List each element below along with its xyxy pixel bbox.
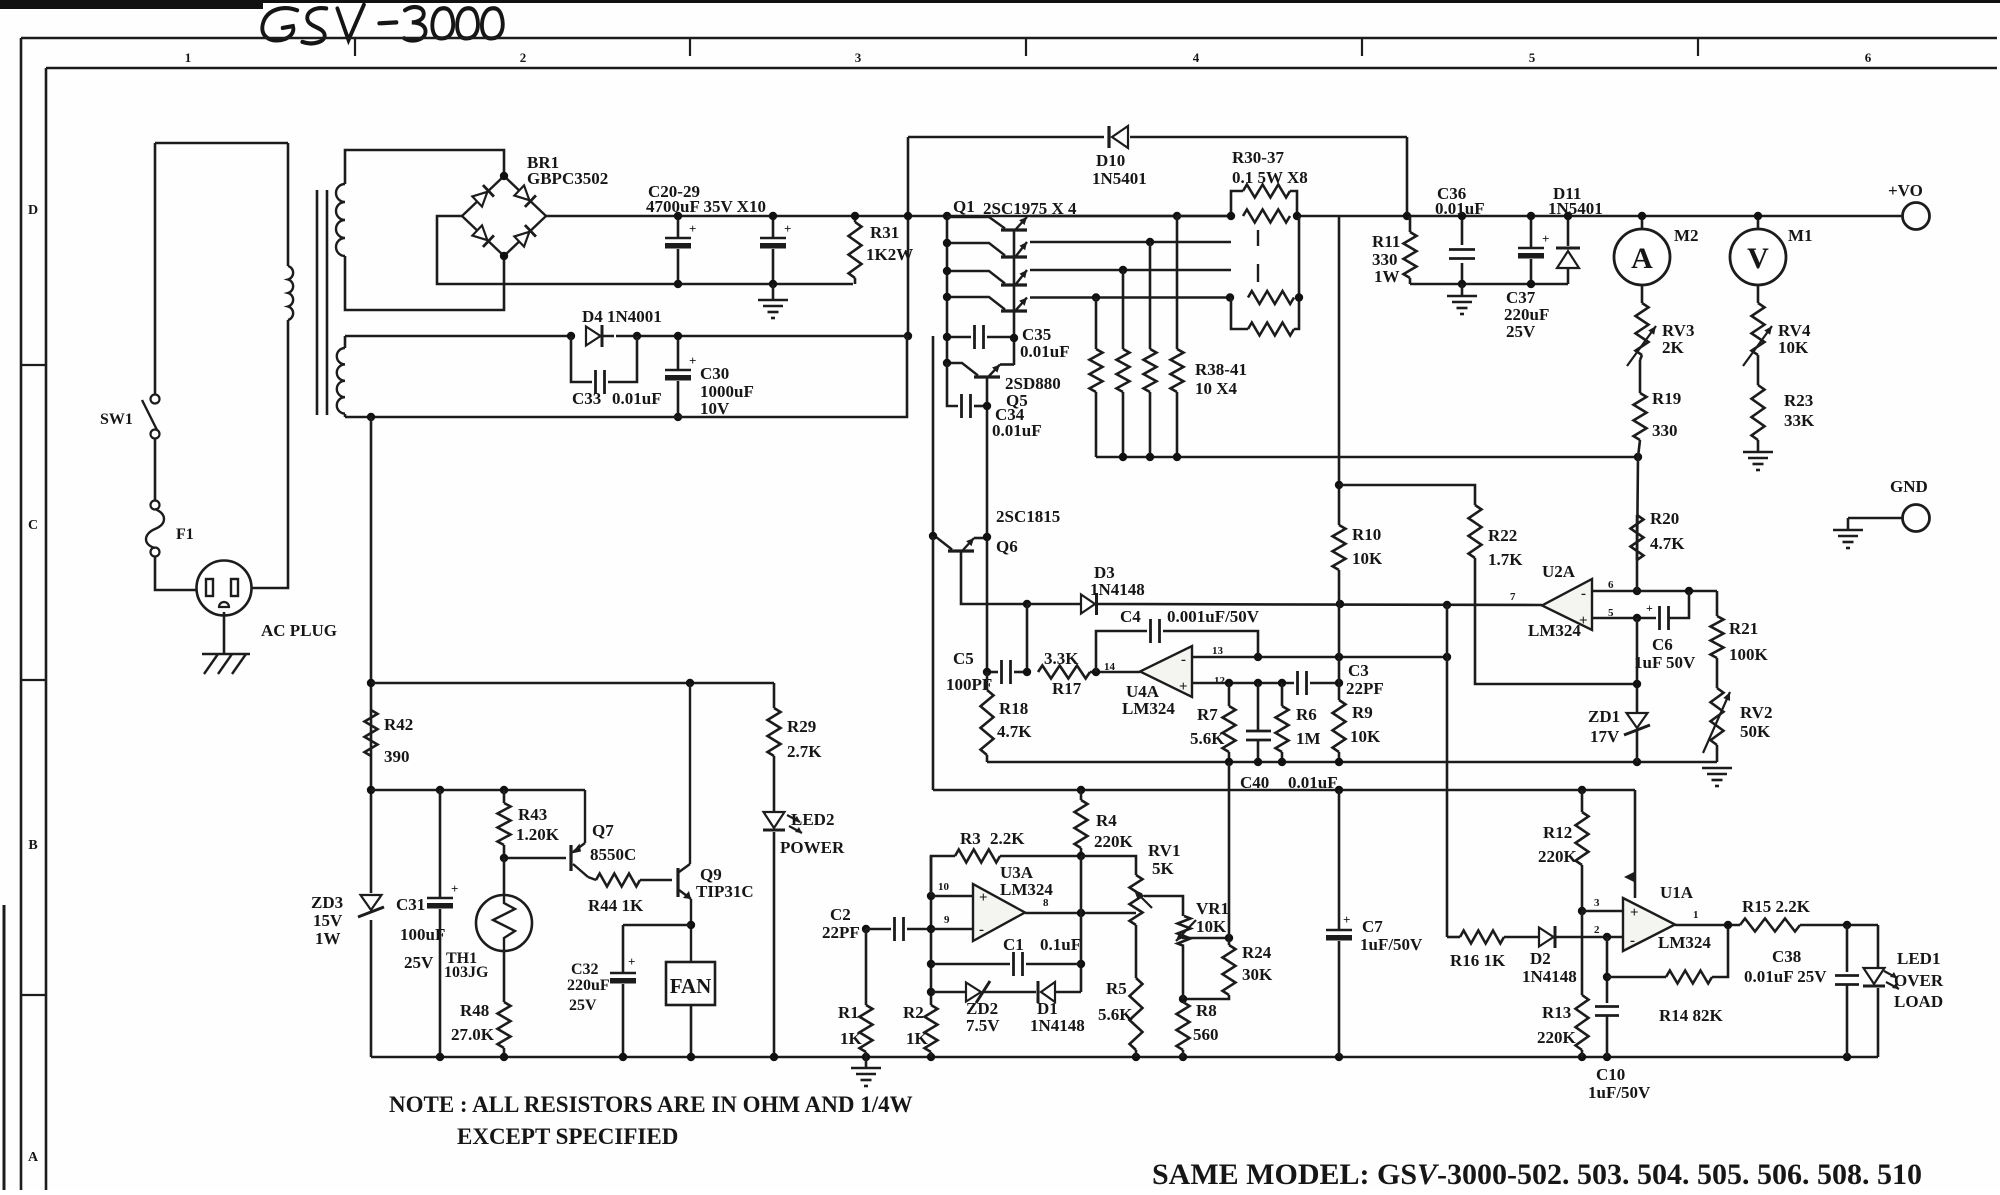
svg-text:+: + <box>1343 912 1350 927</box>
wire U4A out <box>1096 671 1140 674</box>
pot RV2 <box>1711 688 1724 745</box>
svg-text:330: 330 <box>1652 421 1678 440</box>
node rail C10 <box>1603 1053 1611 1061</box>
capacitor C38 <box>1846 925 1849 972</box>
svg-text:10V: 10V <box>700 399 730 418</box>
svg-text:1.20K: 1.20K <box>516 825 560 844</box>
resistor R38b <box>1122 270 1125 349</box>
capacitor C37 <box>1530 216 1533 248</box>
svg-text:R15 2.2K: R15 2.2K <box>1742 897 1811 916</box>
resistor R30-37 upper loop <box>1231 191 1243 216</box>
svg-text:R11: R11 <box>1372 232 1400 251</box>
wire R43 base line <box>504 857 566 860</box>
op-amp U4A <box>1140 646 1192 697</box>
secondary 1 loop bottom <box>345 256 504 310</box>
svg-text:3: 3 <box>1594 897 1600 909</box>
resistor R29 <box>773 683 776 708</box>
svg-text:1N4148: 1N4148 <box>1030 1016 1085 1035</box>
resistor R12 <box>1581 790 1584 812</box>
svg-text:ZD1: ZD1 <box>1588 707 1620 726</box>
svg-text:GBPC3502: GBPC3502 <box>527 169 608 188</box>
wire R24 col <box>1228 762 1231 945</box>
svg-text:R5: R5 <box>1106 979 1127 998</box>
wire RV1 wiper <box>1144 896 1183 916</box>
wire bottom rail <box>371 1056 1878 1059</box>
svg-text:+: + <box>689 221 696 236</box>
svg-text:C10: C10 <box>1596 1065 1625 1084</box>
diode D4 <box>586 327 601 346</box>
pot VR1 <box>1178 916 1191 946</box>
svg-text:OVER: OVER <box>1894 971 1944 990</box>
svg-text:U2A: U2A <box>1542 562 1576 581</box>
wire Q6 collector vertical <box>932 336 935 536</box>
svg-text:0.001uF/50V: 0.001uF/50V <box>1167 607 1260 626</box>
wire sec2 bottom <box>345 336 907 417</box>
svg-text:Q6: Q6 <box>996 537 1018 556</box>
svg-text:NOTE : ALL RESISTORS ARE IN OH: NOTE : ALL RESISTORS ARE IN OHM AND 1/4W <box>389 1092 913 1117</box>
diode D3 <box>1081 595 1095 614</box>
svg-text:0.01uF: 0.01uF <box>1020 342 1070 361</box>
svg-text:10: 10 <box>938 881 950 893</box>
bridge BR1 outline <box>462 176 546 256</box>
svg-text:1W: 1W <box>1374 267 1400 286</box>
svg-text:VR1: VR1 <box>1196 899 1229 918</box>
svg-text:R31: R31 <box>870 223 899 242</box>
node 931 c1 <box>927 960 935 968</box>
node R12 top <box>1578 786 1586 794</box>
svg-text:27.0K: 27.0K <box>451 1025 495 1044</box>
transistor Q1d <box>1001 309 1027 312</box>
svg-text:TIP31C: TIP31C <box>696 882 754 901</box>
svg-text:C6: C6 <box>1652 635 1673 654</box>
led LED1 <box>1877 925 1880 968</box>
svg-text:1: 1 <box>1693 909 1699 921</box>
resistor R8 <box>1177 1002 1190 1050</box>
node 931 pin9 <box>927 925 935 933</box>
svg-text:R8: R8 <box>1196 1001 1217 1020</box>
zener ZD2 <box>931 991 966 994</box>
svg-text:-: - <box>1630 933 1635 949</box>
node C30 bottom <box>674 413 682 421</box>
capacitor C31 <box>439 790 442 898</box>
node r14 tap <box>1603 973 1611 981</box>
wire x931 <box>930 856 933 1005</box>
node rail C32 <box>619 1053 627 1061</box>
wire emitter2 <box>1030 241 1231 244</box>
svg-text:C1: C1 <box>1003 935 1024 954</box>
wire Q1 base bus <box>1013 230 1016 365</box>
svg-text:13: 13 <box>1212 645 1224 657</box>
node sec2 371 <box>367 413 375 421</box>
resistor R20 <box>1636 515 1639 591</box>
svg-text:0.01uF: 0.01uF <box>1435 199 1485 218</box>
svg-text:+: + <box>1542 231 1549 246</box>
wire x1081 down <box>1080 856 1083 992</box>
transistor Q6 <box>948 549 974 552</box>
pot RV1 <box>1130 875 1143 925</box>
node rail R8 <box>1179 1053 1187 1061</box>
node Q1c c <box>943 267 951 275</box>
diode D1 <box>1037 981 1040 1003</box>
meter M2 ammeter <box>1641 216 1644 229</box>
wire emitter1 <box>1030 215 1177 218</box>
svg-text:FAN: FAN <box>670 974 712 998</box>
pot RV4 <box>1757 285 1760 303</box>
wire GND stub <box>1848 517 1902 520</box>
capacitor C2 <box>866 928 891 931</box>
wire main rail right <box>1297 215 1902 218</box>
svg-text:10K: 10K <box>1350 727 1381 746</box>
resistor R6 <box>1281 683 1284 706</box>
svg-text:+VO: +VO <box>1888 181 1923 200</box>
node D4 anode <box>567 332 575 340</box>
svg-text:R42: R42 <box>384 715 413 734</box>
svg-text:2: 2 <box>1594 924 1600 936</box>
node D11 top <box>1564 212 1572 220</box>
node 1407 rail <box>1403 212 1411 220</box>
wire primary right upper <box>287 143 290 266</box>
svg-text:R17: R17 <box>1052 679 1082 698</box>
transistor Q1a <box>1001 228 1027 231</box>
BR1 diode L-T <box>472 192 487 207</box>
capacitor C6 <box>1658 606 1661 630</box>
svg-text:V: V <box>1747 242 1769 275</box>
svg-text:2.2K: 2.2K <box>990 829 1025 848</box>
border row divider <box>21 994 46 996</box>
svg-text:220K: 220K <box>1537 1028 1577 1047</box>
node r30 lower right <box>1295 293 1303 301</box>
svg-text:103JG: 103JG <box>444 964 489 981</box>
node out r4 <box>1077 909 1085 917</box>
resistor R10 <box>1333 525 1346 570</box>
node C4 out <box>1092 668 1100 676</box>
wire pin5 <box>1592 617 1656 620</box>
svg-text:9: 9 <box>944 914 950 926</box>
svg-text:M2: M2 <box>1674 226 1699 245</box>
wire gnd-ref rail <box>987 761 1717 764</box>
svg-text:25V: 25V <box>569 997 597 1014</box>
svg-text:1uF/50V: 1uF/50V <box>1588 1083 1651 1102</box>
svg-text:F1: F1 <box>176 526 194 543</box>
svg-text:Q7: Q7 <box>592 821 614 840</box>
wire Q6 base <box>961 551 1027 604</box>
wire 371 column <box>370 417 373 893</box>
node C37 top <box>1527 212 1535 220</box>
wire pin5 down <box>1636 618 1639 712</box>
wire lower rail <box>678 283 853 286</box>
node C40 bot <box>1254 758 1262 766</box>
svg-text:0.1uF: 0.1uF <box>1040 935 1081 954</box>
capacitor C7 <box>1338 790 1341 930</box>
svg-text:R2: R2 <box>903 1003 924 1022</box>
BR1 diode B-R <box>514 232 529 247</box>
switch SW1 <box>151 395 160 404</box>
svg-text:100K: 100K <box>1729 645 1769 664</box>
svg-text:POWER: POWER <box>780 838 845 857</box>
fan FAN <box>666 962 715 1005</box>
resistor R11 <box>1409 216 1412 232</box>
wire D10 right down <box>1406 137 1409 216</box>
node R22 tap <box>1335 481 1343 489</box>
node rail R48 <box>500 1053 508 1061</box>
node C36 bot <box>1458 280 1466 288</box>
wire SW1 to F1 <box>154 438 157 501</box>
svg-text:5: 5 <box>1529 50 1536 65</box>
svg-text:R24: R24 <box>1242 943 1272 962</box>
svg-text:EXCEPT SPECIFIED: EXCEPT SPECIFIED <box>457 1124 678 1149</box>
svg-text:D4 1N4001: D4 1N4001 <box>582 307 662 326</box>
node C3 right <box>1335 679 1343 687</box>
secondary 1 coil <box>336 184 345 256</box>
svg-text:-: - <box>1181 652 1186 668</box>
svg-text:R9: R9 <box>1352 703 1373 722</box>
node 1447 605 <box>1443 601 1451 609</box>
svg-text:R12: R12 <box>1543 823 1572 842</box>
node out r14 <box>1724 921 1732 929</box>
wire BR1 left to lower rail <box>437 216 678 284</box>
node C20a bottom <box>674 280 682 288</box>
node e4 r38 <box>1092 293 1100 301</box>
node Q6 collector <box>929 532 937 540</box>
border outer left <box>20 38 23 1190</box>
wire R10 col top <box>1338 216 1341 525</box>
svg-text:-: - <box>1581 586 1586 602</box>
node q9 coll line <box>686 679 694 687</box>
ground under C20 <box>772 284 775 300</box>
svg-text:6: 6 <box>1865 50 1872 65</box>
transistor Q9 <box>676 868 679 897</box>
svg-text:6: 6 <box>1608 579 1614 591</box>
svg-text:ZD3: ZD3 <box>311 893 343 912</box>
svg-text:0.1 5W X8: 0.1 5W X8 <box>1232 168 1308 187</box>
wire Q5 base down <box>986 377 989 672</box>
node q9 emitter c32 <box>687 921 695 929</box>
svg-text:100uF: 100uF <box>400 925 445 944</box>
node rail C31 <box>436 1053 444 1061</box>
wire F1 to plug <box>155 556 196 590</box>
resistor R5 <box>1135 925 1138 978</box>
node r38d bus <box>1173 453 1181 461</box>
resistor R38c <box>1149 242 1152 349</box>
node M1 rail <box>1754 212 1762 220</box>
node rail C38 <box>1843 1053 1851 1061</box>
svg-text:R16 1K: R16 1K <box>1450 951 1506 970</box>
node 908 C30 line <box>904 332 912 340</box>
svg-text:1N4148: 1N4148 <box>1090 580 1145 599</box>
svg-text:22PF: 22PF <box>1346 679 1384 698</box>
node pin3 <box>1578 907 1586 915</box>
wire U4A pin13 <box>1192 656 1447 659</box>
node C35 left <box>943 333 951 341</box>
op-amp U2A <box>1542 579 1592 630</box>
node C20a top <box>674 212 682 220</box>
node C20b bottom <box>769 280 777 288</box>
border row divider <box>21 679 46 681</box>
node 931 zd2 <box>927 988 935 996</box>
svg-text:4: 4 <box>1193 50 1200 65</box>
node C30 top <box>674 332 682 340</box>
fuse F1 <box>151 501 160 510</box>
svg-text:D10: D10 <box>1096 151 1125 170</box>
svg-text:C5: C5 <box>953 649 974 668</box>
node C5 left <box>983 668 991 676</box>
border tick 1 <box>354 38 356 56</box>
svg-text:C7: C7 <box>1362 917 1383 936</box>
svg-text:R18: R18 <box>999 699 1028 718</box>
node c38 top <box>1843 921 1851 929</box>
svg-text:C33: C33 <box>572 389 601 408</box>
svg-text:2: 2 <box>520 50 527 65</box>
svg-text:30K: 30K <box>1242 965 1273 984</box>
wire sec2 top line <box>345 335 571 338</box>
transistor Q7 pnp <box>569 845 572 871</box>
svg-text:R20: R20 <box>1650 509 1679 528</box>
node r38c bus <box>1146 453 1154 461</box>
wire R13 col <box>1581 911 1584 995</box>
node C34 right <box>983 402 991 410</box>
capacitor C1 <box>931 963 1010 966</box>
svg-text:A: A <box>1631 242 1653 275</box>
svg-text:B: B <box>28 838 37 853</box>
wire pin6 <box>1592 590 1717 593</box>
svg-text:100PF: 100PF <box>946 675 992 694</box>
svg-text:22PF: 22PF <box>822 923 860 942</box>
resistor R38d <box>1176 216 1179 349</box>
resistor R1 <box>865 929 868 1005</box>
terminal +VO <box>1903 203 1930 230</box>
svg-text:M1: M1 <box>1788 226 1813 245</box>
svg-text:R44 1K: R44 1K <box>588 896 644 915</box>
resistor R22 <box>1469 505 1482 558</box>
svg-text:R22: R22 <box>1488 526 1517 545</box>
svg-text:R13: R13 <box>1542 1003 1571 1022</box>
node C7 top <box>1335 786 1343 794</box>
resistor R4 <box>1080 790 1083 800</box>
svg-text:3: 3 <box>855 50 862 65</box>
svg-text:LED2: LED2 <box>791 810 834 829</box>
capacitor C35 <box>947 336 971 339</box>
svg-text:25V: 25V <box>404 953 434 972</box>
node C40 top <box>1254 679 1262 687</box>
svg-text:-: - <box>979 922 984 938</box>
svg-text:1uF 50V: 1uF 50V <box>1634 653 1696 672</box>
svg-text:1uF/50V: 1uF/50V <box>1360 935 1423 954</box>
wire plug ground <box>223 612 226 654</box>
node rail R13 <box>1578 1053 1586 1061</box>
wire primary top <box>155 142 288 145</box>
secondary 1 loop top <box>345 150 504 184</box>
secondary 2 coil <box>337 348 345 414</box>
transistor Q5 <box>974 375 1000 378</box>
node C2 left <box>862 925 870 933</box>
svg-text:2K: 2K <box>1662 338 1685 357</box>
resistor R17 <box>1038 666 1090 679</box>
svg-text:+: + <box>1630 905 1639 921</box>
node C35 right <box>1010 334 1018 342</box>
svg-text:1N4148: 1N4148 <box>1522 967 1577 986</box>
wire V+ line <box>933 789 1635 792</box>
node R6 bot <box>1278 758 1286 766</box>
node 1339 657 <box>1335 653 1343 661</box>
svg-text:R30-37: R30-37 <box>1232 148 1284 167</box>
node Q5 collector <box>943 359 951 367</box>
wire main rail left <box>546 215 1231 218</box>
resistor R30-37 inline bottom <box>1248 291 1294 304</box>
border tick 4 <box>1361 38 1363 56</box>
dashed continuation <box>1257 230 1259 246</box>
svg-text:SW1: SW1 <box>100 411 133 428</box>
node r38b bus <box>1119 453 1127 461</box>
node 371 683 <box>367 679 375 687</box>
svg-text:+: + <box>784 221 791 236</box>
wire R3 to RV1 <box>1081 856 1136 875</box>
zener ZD3 <box>361 895 382 910</box>
svg-text:C38: C38 <box>1772 947 1801 966</box>
svg-text:+: + <box>1646 601 1653 615</box>
wire primary left upper <box>154 143 157 395</box>
svg-text:10K: 10K <box>1196 917 1227 936</box>
svg-text:4.7K: 4.7K <box>997 722 1032 741</box>
svg-text:R10: R10 <box>1352 525 1381 544</box>
svg-text:D: D <box>28 203 38 218</box>
node r43 top <box>500 786 508 794</box>
ground C36 <box>1461 284 1464 296</box>
wire R22 branch <box>1339 485 1475 505</box>
svg-text:U1A: U1A <box>1660 883 1694 902</box>
capacitor C40 <box>1257 683 1260 731</box>
svg-text:LM324: LM324 <box>1658 933 1711 952</box>
svg-text:220K: 220K <box>1094 832 1134 851</box>
node 371 790 <box>367 786 375 794</box>
resistor R14 <box>1666 971 1712 984</box>
svg-text:1N5401: 1N5401 <box>1092 169 1147 188</box>
node D4 cathode <box>633 332 641 340</box>
node R31 top <box>851 212 859 220</box>
ground R23 <box>1743 451 1773 454</box>
svg-text:7: 7 <box>1510 591 1516 603</box>
title GSV-3000 handwritten <box>262 5 502 44</box>
node BR1 top <box>500 172 508 180</box>
svg-text:10K: 10K <box>1352 549 1383 568</box>
node pin5 <box>1633 614 1641 622</box>
capacitor C33 loop <box>571 336 592 382</box>
svg-text:1K: 1K <box>906 1029 929 1048</box>
svg-text:R43: R43 <box>518 805 547 824</box>
svg-text:+: + <box>451 881 458 896</box>
wire VR1 wiper <box>1182 937 1229 940</box>
resistor R13 <box>1576 995 1589 1050</box>
left scan edge artifact <box>3 905 6 1190</box>
wire fan line <box>371 682 774 685</box>
node C37 bot <box>1527 280 1535 288</box>
svg-text:220uF: 220uF <box>567 977 610 994</box>
svg-text:R7: R7 <box>1197 705 1218 724</box>
node 931 pin10 <box>927 892 935 900</box>
resistor R7 <box>1228 683 1231 706</box>
svg-text:GND: GND <box>1890 477 1928 496</box>
node e4 end <box>1226 293 1234 301</box>
svg-text:LED1: LED1 <box>1897 949 1940 968</box>
svg-text:33K: 33K <box>1784 411 1815 430</box>
svg-text:4700uF 35V X10: 4700uF 35V X10 <box>646 197 766 216</box>
svg-text:+: + <box>628 954 635 969</box>
node Q6 base D3 <box>1023 600 1031 608</box>
node pin2 fb <box>1603 933 1611 941</box>
svg-text:17V: 17V <box>1590 727 1620 746</box>
svg-text:AC PLUG: AC PLUG <box>261 621 337 640</box>
svg-text:5.6K: 5.6K <box>1190 729 1225 748</box>
node R4 top <box>1077 786 1085 794</box>
